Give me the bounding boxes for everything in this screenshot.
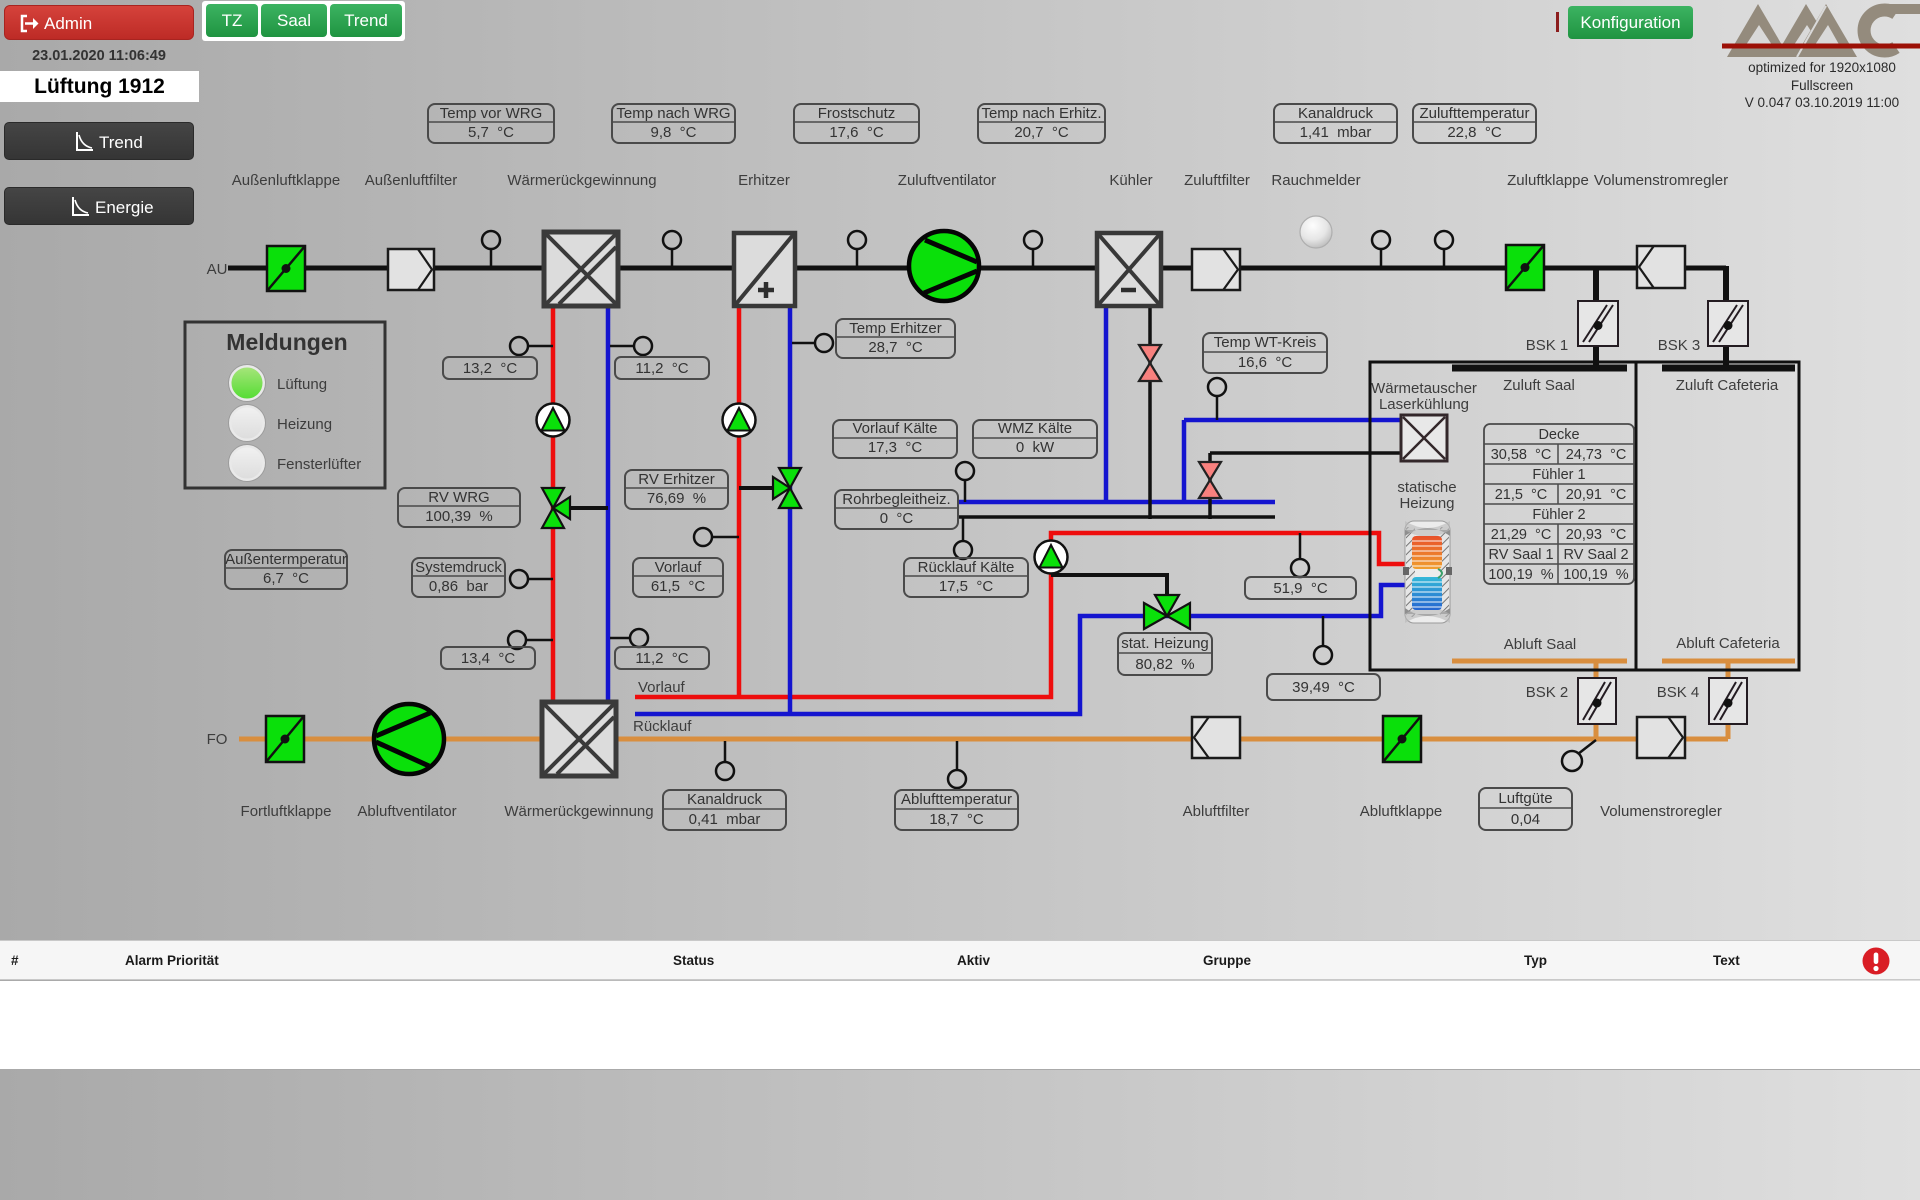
svg-text:Kanaldruck: Kanaldruck: [687, 791, 763, 808]
svg-text:Abluft Saal: Abluft Saal: [1504, 636, 1577, 653]
svg-text:13,2 °C: 13,2 °C: [463, 360, 518, 377]
svg-text:Lüftung: Lüftung: [277, 376, 327, 393]
svg-text:RV Erhitzer: RV Erhitzer: [638, 471, 714, 488]
svg-text:V 0.047 03.10.2019 11:00: V 0.047 03.10.2019 11:00: [1745, 95, 1899, 110]
svg-text:21,29 °C: 21,29 °C: [1491, 527, 1552, 543]
svg-text:Wärmerückgewinnung: Wärmerückgewinnung: [507, 172, 656, 189]
svg-text:Erhitzer: Erhitzer: [738, 172, 790, 189]
svg-text:76,69 %: 76,69 %: [647, 490, 706, 507]
svg-text:Zuluft Cafeteria: Zuluft Cafeteria: [1676, 377, 1779, 394]
svg-text:Fühler 2: Fühler 2: [1532, 507, 1585, 523]
svg-text:61,5 °C: 61,5 °C: [651, 578, 706, 595]
svg-text:BSK 3: BSK 3: [1658, 337, 1701, 354]
svg-text:BSK 2: BSK 2: [1526, 684, 1569, 701]
svg-text:Zulufttemperatur: Zulufttemperatur: [1419, 105, 1529, 122]
svg-text:21,5 °C: 21,5 °C: [1495, 487, 1548, 503]
svg-text:28,7 °C: 28,7 °C: [868, 339, 923, 356]
svg-text:Vorlauf Kälte: Vorlauf Kälte: [852, 420, 937, 437]
svg-text:Außenluftklappe: Außenluftklappe: [232, 172, 340, 189]
svg-text:11,2 °C: 11,2 °C: [635, 650, 688, 667]
svg-text:80,82 %: 80,82 %: [1135, 656, 1194, 673]
svg-text:Zuluftfilter: Zuluftfilter: [1184, 172, 1250, 189]
svg-text:20,93 °C: 20,93 °C: [1566, 527, 1627, 543]
svg-text:Temp vor WRG: Temp vor WRG: [440, 105, 543, 122]
svg-text:Decke: Decke: [1538, 427, 1579, 443]
svg-text:11,2 °C: 11,2 °C: [635, 360, 688, 377]
svg-text:Luftgüte: Luftgüte: [1498, 790, 1552, 807]
svg-text:Abluftfilter: Abluftfilter: [1183, 803, 1250, 820]
svg-text:18,7 °C: 18,7 °C: [929, 811, 984, 828]
svg-text:BSK 1: BSK 1: [1526, 337, 1569, 354]
svg-text:Temp Erhitzer: Temp Erhitzer: [849, 320, 942, 337]
svg-text:Rauchmelder: Rauchmelder: [1271, 172, 1360, 189]
svg-text:Kanaldruck: Kanaldruck: [1298, 105, 1374, 122]
svg-text:RV Saal 2: RV Saal 2: [1563, 547, 1628, 563]
svg-text:100,39 %: 100,39 %: [425, 508, 493, 525]
svg-text:Temp WT-Kreis: Temp WT-Kreis: [1214, 334, 1317, 351]
svg-text:statische: statische: [1397, 479, 1456, 496]
svg-text:24,73 °C: 24,73 °C: [1566, 447, 1627, 463]
svg-text:Heizung: Heizung: [1399, 495, 1454, 512]
svg-text:Fortluftklappe: Fortluftklappe: [241, 803, 332, 820]
svg-text:13,4 °C: 13,4 °C: [461, 650, 516, 667]
svg-text:Temp nach WRG: Temp nach WRG: [616, 105, 730, 122]
svg-text:9,8 °C: 9,8 °C: [650, 124, 696, 141]
svg-text:5,7 °C: 5,7 °C: [468, 124, 514, 141]
svg-text:Kühler: Kühler: [1109, 172, 1152, 189]
svg-text:39,49 °C: 39,49 °C: [1292, 679, 1355, 696]
svg-text:Ablufttemperatur: Ablufttemperatur: [901, 791, 1012, 808]
svg-text:17,5 °C: 17,5 °C: [939, 578, 994, 595]
svg-text:Zuluft Saal: Zuluft Saal: [1503, 377, 1575, 394]
svg-text:FO: FO: [207, 731, 228, 748]
svg-text:Rücklauf: Rücklauf: [633, 718, 692, 735]
svg-text:Temp nach Erhitz.: Temp nach Erhitz.: [981, 105, 1101, 122]
svg-text:Zuluftklappe: Zuluftklappe: [1507, 172, 1589, 189]
svg-text:Meldungen: Meldungen: [226, 329, 347, 355]
svg-text:0,41 mbar: 0,41 mbar: [689, 811, 761, 828]
svg-text:51,9 °C: 51,9 °C: [1273, 580, 1328, 597]
svg-text:Trend: Trend: [99, 133, 143, 152]
svg-text:Vorlauf: Vorlauf: [655, 559, 703, 576]
svg-text:Abluft Cafeteria: Abluft Cafeteria: [1676, 635, 1780, 652]
svg-text:optimized for 1920x1080: optimized for 1920x1080: [1748, 60, 1896, 75]
svg-text:Heizung: Heizung: [277, 416, 332, 433]
svg-text:stat. Heizung: stat. Heizung: [1121, 635, 1209, 652]
svg-text:Wärmerückgewinnung: Wärmerückgewinnung: [504, 803, 653, 820]
svg-text:BSK 4: BSK 4: [1657, 684, 1700, 701]
svg-text:0,04: 0,04: [1511, 811, 1540, 828]
svg-text:6,7 °C: 6,7 °C: [263, 570, 309, 587]
svg-text:Abluftklappe: Abluftklappe: [1360, 803, 1443, 820]
svg-text:Fensterlüfter: Fensterlüfter: [277, 456, 361, 473]
svg-text:Wärmetauscher: Wärmetauscher: [1371, 380, 1477, 397]
svg-text:0 kW: 0 kW: [1016, 439, 1055, 456]
svg-text:RV WRG: RV WRG: [428, 489, 489, 506]
svg-text:Volumenstromregler: Volumenstromregler: [1594, 172, 1728, 189]
svg-text:0,86 bar: 0,86 bar: [429, 578, 488, 595]
svg-text:20,7 °C: 20,7 °C: [1014, 124, 1069, 141]
svg-text:100,19 %: 100,19 %: [1488, 567, 1553, 583]
svg-text:Fullscreen: Fullscreen: [1791, 78, 1853, 93]
svg-text:30,58 °C: 30,58 °C: [1491, 447, 1552, 463]
svg-text:Frostschutz: Frostschutz: [818, 105, 896, 122]
svg-text:Außenluftfilter: Außenluftfilter: [365, 172, 458, 189]
svg-text:RV Saal 1: RV Saal 1: [1488, 547, 1553, 563]
svg-text:AU: AU: [207, 261, 228, 278]
svg-text:Laserkühlung: Laserkühlung: [1379, 396, 1469, 413]
svg-text:Außentermperatur: Außentermperatur: [225, 551, 347, 568]
svg-text:Abluftventilator: Abluftventilator: [357, 803, 456, 820]
svg-text:Systemdruck: Systemdruck: [415, 559, 502, 576]
svg-text:WMZ Kälte: WMZ Kälte: [998, 420, 1072, 437]
svg-text:1,41 mbar: 1,41 mbar: [1300, 124, 1372, 141]
svg-text:Rücklauf Kälte: Rücklauf Kälte: [918, 559, 1015, 576]
svg-text:17,6 °C: 17,6 °C: [829, 124, 884, 141]
svg-text:Volumenstroregler: Volumenstroregler: [1600, 803, 1722, 820]
svg-text:22,8 °C: 22,8 °C: [1447, 124, 1502, 141]
svg-text:0 °C: 0 °C: [880, 510, 914, 527]
svg-text:Zuluftventilator: Zuluftventilator: [898, 172, 996, 189]
svg-text:100,19 %: 100,19 %: [1563, 567, 1628, 583]
svg-text:20,91 °C: 20,91 °C: [1566, 487, 1627, 503]
svg-text:17,3 °C: 17,3 °C: [868, 439, 923, 456]
svg-text:Energie: Energie: [95, 198, 154, 217]
svg-text:Rohrbegleitheiz.: Rohrbegleitheiz.: [842, 491, 950, 508]
svg-text:Fühler 1: Fühler 1: [1532, 467, 1585, 483]
svg-text:Vorlauf: Vorlauf: [638, 679, 686, 696]
svg-text:16,6 °C: 16,6 °C: [1238, 354, 1293, 371]
